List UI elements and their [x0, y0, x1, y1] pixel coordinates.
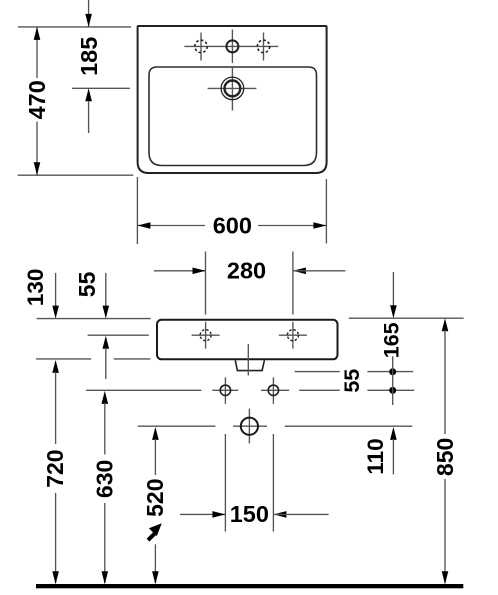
- bolt level extension line left: [88, 334, 149, 336]
- dimension 720 arrow up: [52, 360, 59, 373]
- dimension 130 arrow down: [52, 306, 59, 319]
- faucet hole right vertical: [263, 33, 265, 61]
- svg-text:280: 280: [227, 258, 266, 284]
- extension line 600 left: [136, 177, 138, 244]
- dimension 720 shaft lower: [55, 493, 57, 583]
- floor line: [36, 584, 463, 588]
- svg-text:630: 630: [91, 460, 117, 498]
- dimension 130 shaft: [55, 273, 57, 306]
- supply pipe left circle: [220, 385, 230, 395]
- drain trap (trapezoid): [235, 360, 264, 370]
- dimension 600 line: [138, 225, 326, 227]
- dimension 150 arrow right-pointing: [212, 511, 225, 518]
- trap centerline: [247, 344, 249, 376]
- svg-text:185: 185: [76, 37, 102, 76]
- dimension 850 arrow up: [442, 318, 449, 331]
- dimension 520 shaft upper: [154, 439, 156, 475]
- drain circle: [241, 418, 258, 435]
- dimension 280 left tail: [154, 270, 205, 272]
- svg-text:165: 165: [380, 322, 404, 358]
- dimension 55 left shaft: [105, 273, 107, 306]
- overflow crosshair vertical: [231, 67, 233, 110]
- svg-text:470: 470: [24, 80, 50, 119]
- svg-text:55: 55: [340, 369, 364, 393]
- faucet hole center vertical: [231, 30, 233, 64]
- dimension 165 shaft upper: [392, 272, 394, 306]
- faucet hole left vertical: [200, 33, 202, 61]
- dimension 630 shaft upper: [104, 403, 106, 455]
- dimension 185 arrow up: [85, 88, 92, 101]
- extension line 600 right: [325, 179, 327, 243]
- bolt hole right (front): cross: [279, 322, 307, 349]
- overflow crosshair horizontal: [208, 87, 257, 89]
- dimension 520 arrow down: [152, 571, 159, 584]
- faucet hole right (dashed, optional): [257, 40, 269, 52]
- dimension 850 shaft lower: [444, 479, 446, 583]
- supply pipe right circle: [268, 385, 278, 395]
- extension line at overflow level: [72, 87, 130, 89]
- dimension 185 lower shaft: [88, 101, 90, 133]
- trap bottom level line (dot1 level): [295, 371, 414, 373]
- basin outer rim (plan): [138, 26, 327, 173]
- dimension 165/55 shaft through dots: [392, 356, 394, 405]
- bolt hole right dashed circle: [287, 330, 298, 341]
- dimension 280 right tail: [293, 270, 345, 272]
- dimension 110 arrow up: [390, 427, 397, 440]
- rim level extension line left: [37, 318, 151, 320]
- extension line 150 left: [224, 434, 226, 532]
- overflow outer circle: [221, 77, 244, 100]
- overflow inner circle: [225, 81, 241, 97]
- dimension 280 arrow left-pointing: [293, 268, 306, 275]
- rim level extension line right: [349, 317, 464, 319]
- faucet hole crosshair line (horizontal): [184, 45, 278, 47]
- dimension 520 arrow up: [152, 427, 159, 440]
- dimension 185 arrow down: [85, 14, 92, 27]
- dimension 630 arrow down: [102, 571, 109, 584]
- supply level line (dot2 level): [86, 389, 414, 391]
- dimension 150 arrow left-pointing: [273, 511, 286, 518]
- svg-text:130: 130: [23, 269, 48, 307]
- dimension 150 right tail: [274, 513, 329, 515]
- basin bottom level extension line left: [36, 358, 150, 360]
- dimension 630 shaft lower: [104, 503, 106, 583]
- svg-text:520: 520: [142, 479, 168, 517]
- faucet hole center (solid): [226, 40, 238, 52]
- svg-text:720: 720: [42, 449, 68, 487]
- bolt hole left (front): cross: [192, 322, 220, 349]
- extension line 150 right: [272, 434, 274, 532]
- bolt hole left dashed circle: [200, 330, 211, 341]
- dimension 470 arrow down: [34, 162, 41, 175]
- extension line top (470 upper ref): [18, 26, 131, 28]
- dimension 110 shaft: [392, 439, 394, 474]
- mounting dot 1: [389, 368, 396, 375]
- dimension 630 arrow up: [102, 391, 109, 404]
- svg-text:850: 850: [432, 438, 458, 476]
- faucet hole left (dashed, optional): [195, 40, 207, 52]
- dimension 470 line: [36, 28, 38, 175]
- dimension 55 left lower shaft: [105, 348, 107, 379]
- dimension 520 shaft lower: [154, 544, 156, 583]
- svg-text:150: 150: [230, 501, 269, 527]
- dimension 185 upper shaft: [88, 0, 90, 27]
- svg-text:55: 55: [74, 271, 100, 297]
- dimension 165 arrow down: [390, 305, 397, 318]
- extension line 280 right: [292, 252, 294, 315]
- basin body (front view): [157, 320, 338, 360]
- supply pipe left vertical crosshair: [224, 377, 226, 404]
- dimension 150 left tail: [180, 513, 225, 515]
- dimension 55 left arrow up (lower): [103, 336, 110, 349]
- mounting dot 2: [389, 387, 396, 394]
- dimension 470 arrow up: [34, 27, 41, 40]
- supply pipe right vertical crosshair: [272, 377, 274, 404]
- drain level line: [138, 425, 413, 427]
- drain vertical crosshair: [248, 409, 250, 444]
- dimension 280 arrow right-pointing: [193, 268, 206, 275]
- dimension 55 left arrow down: [103, 306, 110, 319]
- dimension 600 arrow left: [137, 222, 150, 229]
- dimension 720 shaft upper: [55, 372, 57, 444]
- dimension 720 arrow down: [52, 571, 59, 584]
- dimension 600 arrow right: [313, 222, 326, 229]
- svg-text:110: 110: [363, 438, 388, 474]
- dimension 850 shaft upper: [444, 330, 446, 434]
- svg-text:600: 600: [213, 212, 252, 238]
- drain direction arrow (northeast): [148, 523, 162, 540]
- extension line bottom (470 lower ref): [18, 174, 134, 176]
- dimension 850 arrow down: [442, 571, 449, 584]
- extension line 280 left: [205, 252, 207, 315]
- basin inner bowl (plan): [149, 67, 317, 166]
